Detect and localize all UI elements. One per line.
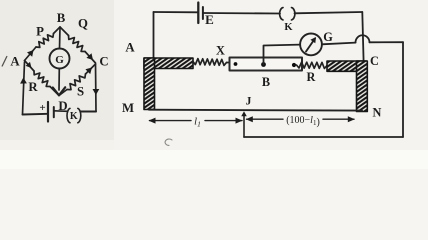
wire top-left vertical bbox=[153, 12, 155, 59]
arrow on P arm bbox=[27, 50, 34, 57]
right copper strip bbox=[327, 61, 367, 112]
wire A-to-battery-rail bbox=[23, 62, 25, 115]
wire key to right corner bbox=[81, 111, 97, 113]
svg-text:C: C bbox=[99, 55, 108, 69]
wire G to D bbox=[58, 69, 60, 91]
arrow up on left wire bbox=[20, 78, 27, 84]
wire right vertical down bbox=[402, 42, 404, 137]
wire bottom rail left bbox=[23, 113, 49, 116]
wire top rail to battery bbox=[154, 11, 199, 13]
arrow down at D bbox=[53, 87, 65, 95]
arrow on Q arm bbox=[86, 53, 93, 60]
galvanometer G (bridge) bbox=[50, 49, 70, 69]
svg-text:A: A bbox=[125, 41, 135, 55]
battery plates bbox=[47, 102, 49, 122]
svg-text:N: N bbox=[373, 106, 382, 120]
dimension l1 bbox=[150, 120, 192, 122]
resistor S arm D-C bbox=[59, 90, 67, 96]
svg-text:M: M bbox=[122, 101, 134, 115]
svg-text:R: R bbox=[28, 80, 38, 94]
arrow down on right wire bbox=[93, 89, 100, 95]
svg-text:X: X bbox=[216, 44, 225, 58]
galvanometer G (metre) bbox=[300, 34, 322, 56]
battery E plates bbox=[197, 3, 199, 24]
resistor P arm A-B bbox=[25, 47, 37, 61]
svg-text:+: + bbox=[39, 102, 45, 114]
wire B to G bbox=[59, 27, 62, 49]
svg-text:R: R bbox=[307, 70, 316, 84]
svg-text:K: K bbox=[70, 111, 78, 122]
faint caption mark bbox=[165, 139, 172, 145]
arrow on S arm bbox=[85, 68, 92, 75]
svg-text:G: G bbox=[323, 30, 333, 44]
stray mark left edge bbox=[2, 57, 7, 67]
wire key to top-right corner bbox=[295, 12, 363, 13]
wire C down to rail bbox=[95, 64, 98, 112]
wire jockey to bottom rail bbox=[244, 136, 403, 138]
resistor R (metre) bbox=[297, 62, 328, 68]
svg-text:B: B bbox=[57, 11, 66, 25]
resistor R arm A-D bbox=[25, 61, 35, 72]
svg-text:E: E bbox=[205, 12, 214, 27]
wire hop to right corner bbox=[370, 41, 404, 43]
junction dot (X end) bbox=[234, 62, 238, 66]
svg-text:K: K bbox=[284, 22, 293, 33]
resistance box bbox=[230, 58, 303, 71]
wire battery to key bbox=[203, 12, 280, 15]
junction dot B bbox=[261, 62, 266, 67]
svg-text:J: J bbox=[246, 96, 252, 108]
svg-text:D: D bbox=[58, 99, 67, 113]
svg-text:S: S bbox=[77, 85, 84, 99]
wire battery to key bbox=[54, 110, 68, 113]
wire down to C strip bbox=[362, 12, 363, 62]
arrow on R arm bbox=[26, 62, 32, 68]
svg-text:Q: Q bbox=[78, 17, 88, 31]
wire B up to galvanometer bbox=[264, 45, 301, 65]
resistor X bbox=[193, 59, 227, 66]
left copper strip bbox=[144, 58, 193, 110]
svg-text:B: B bbox=[262, 75, 270, 89]
key K (left) bbox=[67, 108, 70, 122]
svg-text:P: P bbox=[36, 25, 44, 39]
key K (top) bbox=[280, 8, 283, 20]
jockey tick with up arrow bbox=[243, 114, 245, 137]
bridge wire MN bbox=[149, 109, 362, 112]
svg-text:C: C bbox=[370, 54, 379, 68]
wire galvanometer right bbox=[322, 43, 356, 45]
svg-text:G: G bbox=[55, 54, 64, 66]
junction dot (R end) bbox=[292, 63, 296, 67]
dimension 100-l1 bbox=[247, 118, 284, 120]
resistor Q arm B-C bbox=[60, 27, 69, 36]
wire hop over vertical bbox=[355, 35, 369, 42]
svg-text:A: A bbox=[10, 55, 20, 69]
